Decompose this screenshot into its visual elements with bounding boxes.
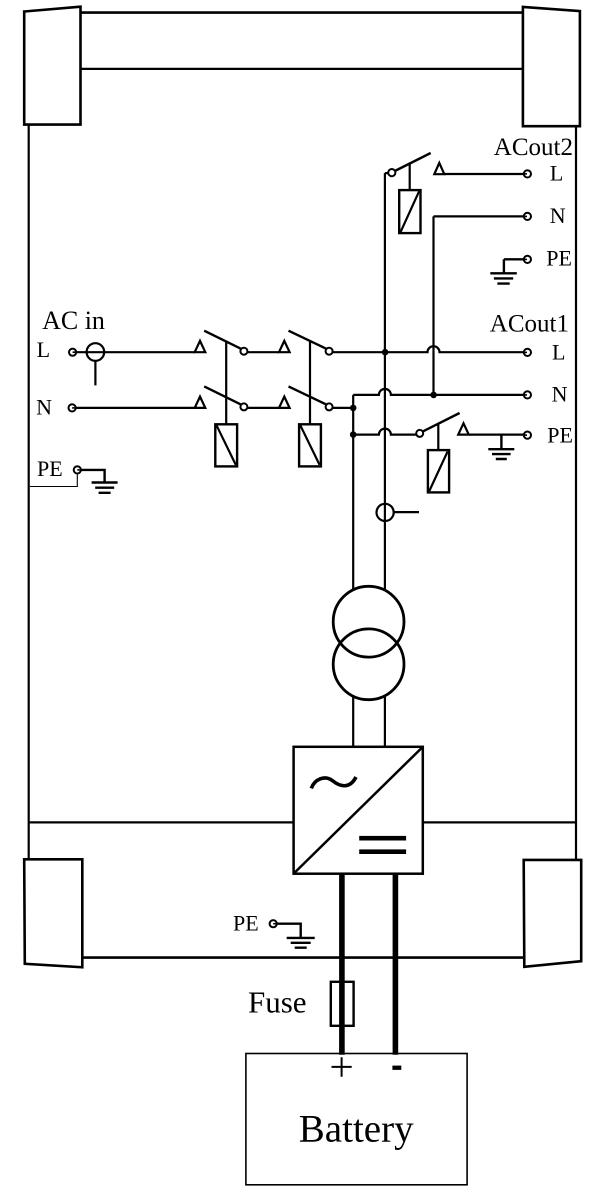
svg-text:ACout2: ACout2 <box>494 134 573 161</box>
svg-text:ACout1: ACout1 <box>490 310 569 337</box>
svg-text:PE: PE <box>547 422 573 447</box>
svg-text:Battery: Battery <box>299 1108 414 1151</box>
svg-text:N: N <box>550 203 566 228</box>
svg-text:AC in: AC in <box>42 306 105 335</box>
svg-text:L: L <box>552 339 565 364</box>
svg-text:PE: PE <box>37 456 63 481</box>
svg-text:N: N <box>36 395 52 420</box>
svg-text:L: L <box>550 160 563 185</box>
svg-text:N: N <box>552 382 568 407</box>
svg-text:PE: PE <box>233 910 259 935</box>
svg-text:PE: PE <box>546 246 572 271</box>
svg-text:Fuse: Fuse <box>248 985 307 1020</box>
svg-text:L: L <box>37 337 50 362</box>
